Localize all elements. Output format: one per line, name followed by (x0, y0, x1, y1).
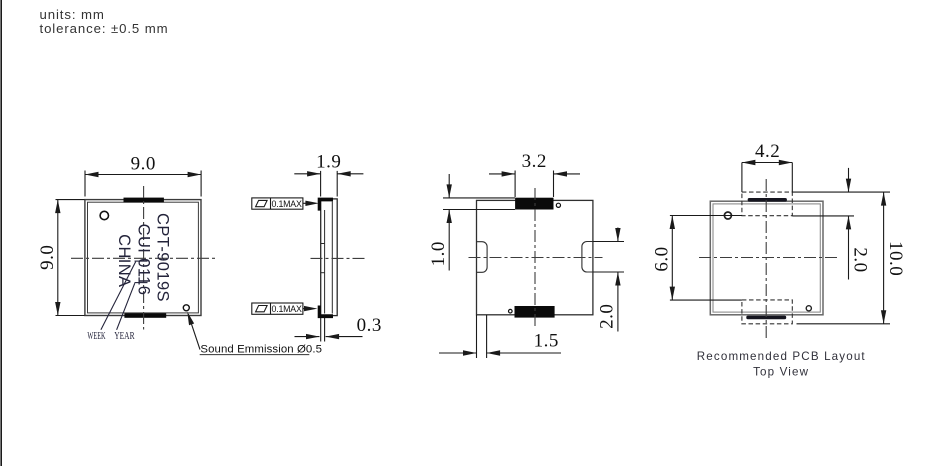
svg-text:4.2: 4.2 (755, 141, 780, 162)
svg-text:0.1MAX: 0.1MAX (272, 304, 302, 314)
svg-text:Recommended PCB Layout: Recommended PCB Layout (697, 350, 866, 363)
svg-text:2.0: 2.0 (849, 247, 870, 272)
svg-text:Sound Emmission Ø0.5: Sound Emmission Ø0.5 (200, 344, 322, 356)
svg-text:9.0: 9.0 (131, 154, 156, 175)
svg-text:9.0: 9.0 (37, 245, 58, 270)
svg-text:1.9: 1.9 (316, 152, 341, 173)
svg-text:CHINA: CHINA (115, 234, 133, 287)
svg-text:units: mm: units: mm (40, 7, 105, 22)
svg-text:1.5: 1.5 (534, 331, 559, 352)
svg-text:Top View: Top View (753, 365, 809, 378)
svg-text:YEAR: YEAR (114, 331, 135, 342)
svg-text:6.0: 6.0 (652, 246, 673, 271)
svg-text:10.0: 10.0 (885, 241, 906, 276)
svg-text:2.0: 2.0 (597, 304, 618, 329)
svg-text:3.2: 3.2 (522, 151, 547, 172)
svg-text:WEEK: WEEK (87, 331, 106, 342)
svg-text:0.1MAX: 0.1MAX (272, 199, 302, 209)
svg-text:CPT-9019S: CPT-9019S (154, 213, 172, 302)
svg-text:1.0: 1.0 (428, 241, 449, 266)
svg-text:CUI 0116: CUI 0116 (135, 224, 153, 296)
svg-text:0.3: 0.3 (357, 315, 382, 336)
svg-text:tolerance: ±0.5 mm: tolerance: ±0.5 mm (40, 21, 169, 36)
